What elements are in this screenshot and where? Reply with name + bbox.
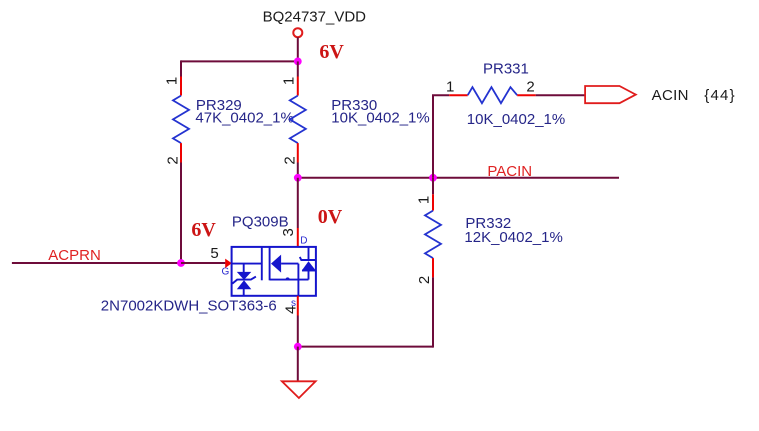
svg-text:ACPRN: ACPRN <box>48 247 101 264</box>
resistor PR332 pin 2 <box>432 258 434 277</box>
wire PACIN rail <box>298 177 619 179</box>
body diode base line <box>302 270 316 272</box>
wire ground stem <box>297 347 299 382</box>
body diode triangle <box>302 261 316 270</box>
resistor PR329 body <box>173 96 189 144</box>
svg-text:{44}: {44} <box>704 87 736 104</box>
svg-text:2: 2 <box>416 276 433 284</box>
wire bottom rail <box>298 346 433 348</box>
transistor PQ309B source pin 4 <box>297 296 299 316</box>
junction bottom rail <box>294 343 302 351</box>
svg-text:1: 1 <box>446 79 454 96</box>
wire riser to PR331 <box>433 95 449 178</box>
svg-text:2N7002KDWH_SOT363-6: 2N7002KDWH_SOT363-6 <box>101 298 277 315</box>
wire source to bottom junction <box>297 316 299 347</box>
junction ACPRN <box>177 259 185 267</box>
resistor PR332 body <box>425 211 441 259</box>
wire PACIN junction down to transistor drain <box>297 178 299 228</box>
wire ACPRN <box>12 262 181 264</box>
transistor PQ309B substrate arrow <box>271 255 281 273</box>
svg-text:10K_0402_1%: 10K_0402_1% <box>467 111 565 128</box>
resistor PR330 pin 2 <box>297 143 299 162</box>
power terminal circle BQ24737_VDD <box>293 28 302 37</box>
transistor PQ309B drain pin 3 <box>297 228 299 248</box>
svg-text:1: 1 <box>281 77 298 85</box>
svg-text:1: 1 <box>416 196 433 204</box>
ground <box>282 381 316 398</box>
svg-text:47K_0402_1%: 47K_0402_1% <box>195 110 293 127</box>
ESD zener top lead <box>243 264 245 273</box>
svg-text:D: D <box>300 236 307 247</box>
body diode cathode lead <box>308 247 310 260</box>
wire top rail <box>181 60 298 62</box>
svg-text:0V: 0V <box>318 206 343 228</box>
transistor PQ309B gate arrow <box>225 259 232 268</box>
wire left branch upper stub <box>180 60 182 76</box>
body diode anode lead <box>308 271 310 280</box>
transistor PQ309B gate line <box>232 263 262 265</box>
svg-text:PACIN: PACIN <box>487 163 532 180</box>
junction top rail <box>294 58 302 66</box>
svg-text:1: 1 <box>164 77 181 85</box>
ESD zener lower triangle <box>237 280 252 289</box>
wire PR332 to bottom rail <box>432 277 434 347</box>
off-page port ACIN <box>585 86 636 103</box>
wire stem from VDD circle to top rail <box>297 37 299 61</box>
ESD zener bars with wings <box>232 277 256 284</box>
svg-text:2: 2 <box>282 156 299 164</box>
junction PACIN at PR330 <box>294 174 302 182</box>
wire left branch lower <box>180 163 182 264</box>
wire hop bump on bottom connection <box>285 277 289 279</box>
resistor PR332 upper stub <box>432 178 434 195</box>
wire ACPRN junction to gate <box>181 262 225 264</box>
junction PACIN at PR332 <box>429 174 437 182</box>
body diode cathode bar <box>300 257 316 260</box>
svg-text:10K_0402_1%: 10K_0402_1% <box>331 110 429 127</box>
transistor PQ309B channel bar <box>269 247 271 280</box>
transistor PQ309B gate bar <box>261 247 263 280</box>
svg-text:5: 5 <box>210 245 218 262</box>
svg-text:s: s <box>291 298 296 309</box>
svg-text:3: 3 <box>280 228 297 236</box>
resistor PR330 pin 1 <box>297 77 299 96</box>
resistor PR331 body <box>468 87 518 103</box>
svg-text:PR331: PR331 <box>483 60 529 77</box>
svg-text:ACIN: ACIN <box>652 87 689 104</box>
transistor PQ309B source line vertical <box>297 264 299 296</box>
svg-text:BQ24737_VDD: BQ24737_VDD <box>263 8 367 25</box>
svg-text:2: 2 <box>526 79 534 96</box>
svg-text:6V: 6V <box>319 41 344 63</box>
ESD zener upper triangle <box>237 272 252 280</box>
svg-text:PQ309B: PQ309B <box>232 213 289 230</box>
transistor PQ309B source line horizontal <box>281 263 298 265</box>
resistor PR332 pin 1 <box>432 194 434 210</box>
wire PR331 to ACIN port <box>536 94 585 96</box>
wire PR330 to PACIN junction <box>297 163 299 178</box>
wire PR330 upper stub <box>297 61 299 76</box>
svg-text:6V: 6V <box>191 219 216 241</box>
svg-text:2: 2 <box>165 156 182 164</box>
resistor PR331 pin 1 <box>449 94 468 96</box>
ESD zener bottom lead <box>243 289 245 296</box>
transistor PQ309B bottom connection line <box>270 279 309 281</box>
resistor PR331 pin 2 <box>517 94 536 96</box>
resistor PR329 pin 2 <box>180 143 182 162</box>
resistor R PR329 pin 1 <box>180 77 182 96</box>
transistor PQ309B body outline <box>232 247 316 296</box>
svg-text:12K_0402_1%: 12K_0402_1% <box>464 229 562 246</box>
svg-text:G: G <box>222 266 230 277</box>
resistor PR330 body <box>290 96 306 144</box>
